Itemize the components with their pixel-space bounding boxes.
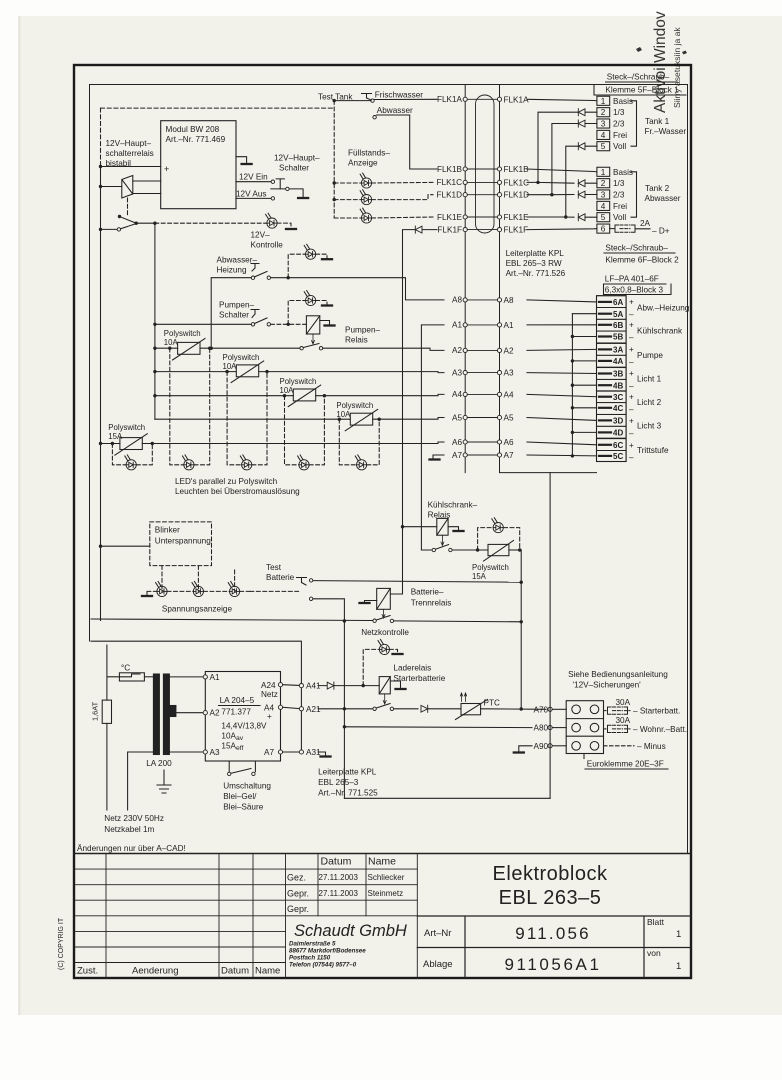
svg-text:Voll: Voll xyxy=(613,213,626,222)
svg-text:Spannungsanzeige: Spannungsanzeige xyxy=(162,605,233,614)
wire FLK1C across connector xyxy=(467,181,497,183)
svg-text:5: 5 xyxy=(601,213,606,222)
svg-text:Licht 2: Licht 2 xyxy=(637,398,662,407)
junction dashed LED1 xyxy=(333,181,336,184)
wire A7 to 5C xyxy=(527,454,597,457)
node A8 right pin xyxy=(497,298,501,302)
dashed 12V-Kontrolle row xyxy=(155,222,267,224)
dashed LED1 wires xyxy=(334,181,433,184)
block2 terminal 6 xyxy=(597,224,610,233)
dashed pumpen LED drop xyxy=(288,301,327,325)
svg-text:6: 6 xyxy=(601,225,606,234)
dashed LED box F5 xyxy=(112,444,152,465)
svg-text:Polyswitch: Polyswitch xyxy=(472,563,509,572)
minus stub 4C xyxy=(572,407,596,409)
junction minus 4B xyxy=(571,384,574,387)
svg-text:1: 1 xyxy=(601,97,606,106)
fuse F8 30A wohnraum xyxy=(604,728,608,730)
svg-text:Siirry asetuksiin ja ak: Siirry asetuksiin ja ak xyxy=(672,27,682,108)
svg-text:3A: 3A xyxy=(613,346,623,355)
svg-text:A1: A1 xyxy=(452,321,462,330)
wire mains left vertical xyxy=(107,645,120,700)
wire row4 bus to F4 xyxy=(155,418,350,420)
svg-text:15A: 15A xyxy=(221,742,236,751)
svg-text:A2: A2 xyxy=(210,709,220,718)
node A5 right pin xyxy=(497,415,501,419)
transformer T1 primary bar xyxy=(153,674,159,755)
dashed Pumpen to relay coil xyxy=(271,323,307,325)
wire A3 across connector xyxy=(467,372,497,374)
svg-text:4: 4 xyxy=(601,131,606,140)
LED level 3 xyxy=(360,208,372,223)
svg-text:3: 3 xyxy=(601,120,606,129)
wire A90 stub to block xyxy=(552,745,566,747)
svg-text:Licht 3: Licht 3 xyxy=(637,422,662,431)
junction bus blinker xyxy=(99,545,102,548)
svg-text:FLK1E: FLK1E xyxy=(504,213,530,222)
svg-text:Datum: Datum xyxy=(221,966,249,977)
svg-text:2/3: 2/3 xyxy=(613,191,625,200)
svg-text:Trennrelais: Trennrelais xyxy=(411,599,452,608)
svg-text:LA 200: LA 200 xyxy=(146,759,172,768)
pin test batterie a xyxy=(309,579,312,582)
wire thermal fuse to transformer xyxy=(144,676,153,678)
terminal 3B xyxy=(597,368,627,380)
svg-text:–: – xyxy=(629,405,634,414)
svg-text:(C) COPYRIG IT: (C) COPYRIG IT xyxy=(58,917,65,970)
node FLK1E left pin xyxy=(463,215,467,219)
ground Pumpen-Relais xyxy=(325,325,335,327)
svg-text:Umschaltung: Umschaltung xyxy=(223,782,271,791)
dashed enclosure left xyxy=(100,108,102,166)
ground Spannungsanzeige xyxy=(142,595,152,597)
switch Test Batterie button xyxy=(297,578,307,586)
ground Abw LED xyxy=(322,258,332,260)
wire K3 coil to ground xyxy=(448,527,458,530)
wire row2 F2 to A3 xyxy=(259,372,444,373)
svg-text:A4: A4 xyxy=(452,390,462,399)
svg-text:911.056: 911.056 xyxy=(515,924,591,943)
Euroklemme screws row3 xyxy=(572,742,581,751)
minus stub 4D xyxy=(572,431,596,433)
wire test tank to dashed bus xyxy=(334,100,371,102)
svg-text:Heizung: Heizung xyxy=(217,266,247,275)
svg-text:12V–Haupt–: 12V–Haupt– xyxy=(274,154,320,163)
block1 terminal 2 xyxy=(597,108,610,117)
revision table horizontal lines xyxy=(74,869,417,962)
wire mid contact to ground xyxy=(289,189,303,197)
PCB left edge vertical xyxy=(464,85,466,473)
svg-text:Basis: Basis xyxy=(613,168,633,177)
svg-text:Klemme 5F–Block 1: Klemme 5F–Block 1 xyxy=(605,86,679,95)
wire diode to FLK1F xyxy=(422,229,437,231)
contact K3 xyxy=(432,548,435,551)
node FLK1A left pin xyxy=(463,97,467,101)
svg-text:– Wohnr.–Batt.: – Wohnr.–Batt. xyxy=(633,725,687,734)
dashed link coil to switch xyxy=(127,198,129,216)
dashed box Blinker Unterspannung xyxy=(150,522,212,566)
wire K3 contact to F6 xyxy=(452,549,488,551)
svg-text:2: 2 xyxy=(601,179,606,188)
wire coil to module b xyxy=(133,193,161,195)
wire FLK1F vertical drop xyxy=(390,230,415,594)
node A2 right pin xyxy=(497,348,501,352)
node A4 left pin xyxy=(463,392,467,396)
svg-text:Abw.–Heizung: Abw.–Heizung xyxy=(637,304,690,313)
transformer tap notch xyxy=(169,706,176,717)
junction bus pumpen xyxy=(153,323,156,326)
pin A21 xyxy=(299,707,303,711)
relay K2 actuator arrow xyxy=(312,335,315,345)
LED voltage 2 xyxy=(192,582,204,597)
fuse 1,6AT body xyxy=(102,700,111,723)
svg-text:FLK1A: FLK1A xyxy=(504,95,530,104)
long row relay contact y620 xyxy=(91,619,373,621)
block2 bracket xyxy=(631,172,637,217)
spade terminal container xyxy=(597,296,627,462)
svg-text:– D+: – D+ xyxy=(652,227,670,236)
wire row3 F3 to A4 xyxy=(316,394,444,395)
svg-text:– Starterbatt.: – Starterbatt. xyxy=(633,707,680,716)
ground A90 xyxy=(514,752,524,754)
svg-text:2: 2 xyxy=(601,108,606,117)
wire FLK1D across connector xyxy=(467,194,497,196)
bus 12V main vertical xyxy=(100,167,102,621)
polyswitch F1 10A xyxy=(178,342,200,354)
svg-text:EBL 263–5: EBL 263–5 xyxy=(499,887,602,909)
svg-text:Daimlerstraße 5: Daimlerstraße 5 xyxy=(289,941,336,948)
svg-text:A24: A24 xyxy=(261,681,276,690)
terminal 4C xyxy=(597,403,627,415)
junction battery bus A70 xyxy=(520,707,523,710)
relay K3 actuator arrow xyxy=(441,536,444,546)
diode A21 charge xyxy=(421,705,428,712)
relay K3 Kuehlschrank coil xyxy=(437,518,448,535)
wire FLK1D to diodes xyxy=(527,124,597,195)
relay K2 Pumpen-Relais coil xyxy=(306,316,319,334)
svg-text:5A: 5A xyxy=(613,310,623,319)
junction dashed LED2 xyxy=(333,198,336,201)
diode D block1-3 xyxy=(578,120,585,127)
junction minus 5C xyxy=(571,454,574,457)
block2 terminal 5 xyxy=(597,213,610,222)
LED Pumpen xyxy=(304,291,316,306)
junction minus 4D xyxy=(571,431,574,434)
svg-text:3B: 3B xyxy=(613,370,623,379)
diode D block2-3 xyxy=(578,191,585,198)
svg-text:A5: A5 xyxy=(504,414,514,423)
svg-text:Basis: Basis xyxy=(613,97,633,106)
wire bus to module plus xyxy=(101,166,161,168)
ground Netzkontrolle LED xyxy=(393,653,403,655)
svg-text:Voll: Voll xyxy=(613,142,626,151)
svg-text:6C: 6C xyxy=(613,441,623,450)
pin A3 xyxy=(203,750,207,754)
svg-text:Art.–Nr. 771.469: Art.–Nr. 771.469 xyxy=(166,135,226,144)
net Minus dashed xyxy=(604,745,635,747)
dashed drops to voltage LEDs xyxy=(147,566,250,595)
svg-text:Art.–Nr. 771.525: Art.–Nr. 771.525 xyxy=(318,788,378,797)
svg-text:Netzkabel 1m: Netzkabel 1m xyxy=(104,825,154,834)
svg-text:Aktivoi Windov: Aktivoi Windov xyxy=(652,11,669,113)
diode D block1-5 xyxy=(578,143,585,150)
svg-text:Leiterplatte KPL: Leiterplatte KPL xyxy=(318,768,377,777)
svg-text:'12V–Sicherungen': '12V–Sicherungen' xyxy=(573,681,642,690)
svg-text:Frei: Frei xyxy=(613,202,627,211)
svg-text:FLK1B: FLK1B xyxy=(504,165,530,174)
junction F2 dash xyxy=(225,370,228,373)
svg-text:Schalter: Schalter xyxy=(279,164,309,173)
cable harness capsule xyxy=(476,95,495,233)
ground 12V-Haupt xyxy=(298,197,308,199)
svg-text:1: 1 xyxy=(676,961,681,972)
junction F5 dash left xyxy=(111,442,114,445)
block1 terminal 4 xyxy=(597,130,610,139)
wire A4 to A21 pin xyxy=(283,707,300,708)
svg-text:–: – xyxy=(629,310,634,319)
scan speck right xyxy=(682,51,687,55)
svg-text:A7: A7 xyxy=(452,451,462,460)
svg-text:– Minus: – Minus xyxy=(637,742,666,751)
svg-text:5: 5 xyxy=(601,142,606,151)
svg-text:12V–: 12V– xyxy=(251,231,271,240)
battery minus bottom return xyxy=(344,797,550,799)
wire A1 across connector xyxy=(467,324,497,326)
LED Netzkontrolle xyxy=(378,640,390,655)
ground chassis transformer xyxy=(163,770,165,785)
wire FLK1C to diodes xyxy=(527,112,597,183)
svg-text:+: + xyxy=(629,417,634,426)
wire A21 row left xyxy=(318,708,373,710)
junction pumpen LED tap xyxy=(287,323,290,326)
node A7 left pin xyxy=(463,453,467,457)
switch Test Tank button xyxy=(362,94,372,99)
LED level 1 xyxy=(360,173,372,188)
dashed LED box F4 xyxy=(339,419,379,465)
junction minus 4C xyxy=(571,406,574,409)
svg-text:Gepr.: Gepr. xyxy=(287,889,309,899)
terminal 5C xyxy=(597,451,627,462)
wire row5 F5 to A6 xyxy=(142,442,444,444)
svg-text:Art.–Nr. 771.526: Art.–Nr. 771.526 xyxy=(506,269,566,278)
wire primary bottom to mains2 xyxy=(128,752,154,810)
junction FLK1C xyxy=(536,181,539,184)
svg-text:4D: 4D xyxy=(613,429,623,438)
outer drawing frame xyxy=(74,65,691,978)
junction bus S2 xyxy=(99,228,102,231)
Umschaltung stubs xyxy=(229,761,255,772)
thermal fuse body xyxy=(119,673,144,681)
svg-text:Tank 2: Tank 2 xyxy=(645,184,670,193)
svg-text:Änderungen nur über A–CAD!: Änderungen nur über A–CAD! xyxy=(77,843,186,853)
svg-text:Telefon (07544) 9577–0: Telefon (07544) 9577–0 xyxy=(289,962,357,969)
svg-text:+: + xyxy=(629,321,634,330)
svg-text:A2: A2 xyxy=(504,346,514,355)
wire secondary top to A1 xyxy=(169,676,203,678)
svg-text:Anzeige: Anzeige xyxy=(348,159,378,168)
svg-text:A2: A2 xyxy=(452,346,462,355)
terminal 5B xyxy=(597,331,627,343)
ground K3 xyxy=(454,530,464,532)
svg-text:Trittstufe: Trittstufe xyxy=(637,446,669,455)
PTC arrows xyxy=(460,693,466,702)
svg-text:Ablage: Ablage xyxy=(423,959,453,970)
relay K4 actuator arrow xyxy=(382,610,385,619)
wire row3 bus to F3 xyxy=(155,395,293,397)
svg-text:Pumpen–: Pumpen– xyxy=(345,326,380,335)
svg-text:Name: Name xyxy=(255,966,280,977)
wire FLK1A to block1 terminal 1 xyxy=(527,99,597,101)
dashed LED box F3 xyxy=(285,396,325,465)
svg-text:Laderelais: Laderelais xyxy=(393,664,431,673)
junction FLK1D xyxy=(550,193,553,196)
svg-text:Siehe Bedienungsanleitung: Siehe Bedienungsanleitung xyxy=(568,670,668,679)
svg-text:4A: 4A xyxy=(613,357,623,366)
svg-text:4: 4 xyxy=(601,202,606,211)
wire K5 to ground xyxy=(390,681,400,688)
svg-text:A6: A6 xyxy=(504,438,514,447)
junction F4 dash xyxy=(338,418,341,421)
block1 terminal 1 xyxy=(597,96,610,105)
svg-text:Blei–Gel/: Blei–Gel/ xyxy=(223,792,257,801)
svg-text:15A: 15A xyxy=(472,572,487,581)
svg-text:+: + xyxy=(267,712,272,721)
node A3 left pin xyxy=(463,371,467,375)
svg-text:Schaudt GmbH: Schaudt GmbH xyxy=(294,922,407,940)
node FLK1F left pin xyxy=(463,228,467,232)
block1 terminal 3 xyxy=(597,119,610,128)
wire switch to bus x155 xyxy=(136,222,155,224)
node A3 right pin xyxy=(497,371,501,375)
minus stub 5A xyxy=(572,313,596,315)
svg-text:+: + xyxy=(629,369,634,378)
relay K5 Laderelais coil xyxy=(379,677,390,694)
switch 12V-Haupt mid contact xyxy=(271,188,286,190)
junction F1 dash xyxy=(168,347,171,350)
svg-text:Blatt: Blatt xyxy=(647,917,665,927)
svg-text:14,4V/13,8V: 14,4V/13,8V xyxy=(221,722,267,731)
block2 terminal 2 xyxy=(597,179,610,188)
svg-text:Test: Test xyxy=(266,563,282,572)
dashed sensor bus vertical xyxy=(333,101,335,218)
node FLK1C left pin xyxy=(463,180,467,184)
LED level 2 xyxy=(360,190,372,205)
svg-text:–: – xyxy=(629,382,634,391)
svg-text:+: + xyxy=(164,164,169,174)
svg-text:Frischwasser: Frischwasser xyxy=(375,90,423,99)
svg-text:Starterbatterie: Starterbatterie xyxy=(393,674,445,683)
pin A1 xyxy=(203,675,207,679)
minus stub 4A xyxy=(572,360,596,362)
title block top line xyxy=(74,853,691,855)
wire Abw-Heizung left drop xyxy=(211,278,251,349)
svg-text:°C: °C xyxy=(121,664,130,673)
switch Abw-Heizung contacts xyxy=(251,276,254,279)
battery bus vertical x521 xyxy=(520,550,522,709)
dashed LED box F2 xyxy=(227,372,267,465)
wire contact K5 to diode xyxy=(394,708,418,710)
node A7 right pin xyxy=(497,453,501,457)
ground 12V-Kontrolle xyxy=(286,228,296,230)
junction battery bus test xyxy=(520,581,523,584)
node FLK1D right pin xyxy=(497,193,501,197)
wire secondary bottom to A3 xyxy=(169,751,203,753)
terminal 6C xyxy=(597,439,627,451)
svg-text:Netz: Netz xyxy=(261,690,278,699)
junction minus 5B xyxy=(571,335,574,338)
svg-text:Elektroblock: Elektroblock xyxy=(493,863,608,885)
terminal 4A xyxy=(597,355,627,367)
svg-text:12V–Haupt–: 12V–Haupt– xyxy=(106,139,152,148)
wire test batterie to battery bus xyxy=(313,581,521,583)
battery minus column vertical xyxy=(549,473,551,799)
Euroklemme block outline xyxy=(566,701,603,754)
svg-text:A8: A8 xyxy=(504,296,514,305)
polyswitch F4 10A xyxy=(350,413,372,425)
svg-text:Batterie–: Batterie– xyxy=(411,588,444,597)
svg-text:Gez.: Gez. xyxy=(287,873,306,883)
terminal 3A xyxy=(597,344,627,356)
wire diode to PTC xyxy=(428,708,461,710)
terminal 3C xyxy=(597,391,627,403)
svg-text:PTC: PTC xyxy=(484,699,500,708)
junction FLK1F K3 xyxy=(401,525,404,528)
svg-text:Relais: Relais xyxy=(345,336,368,345)
wire A24 to A41 pin xyxy=(283,684,300,687)
junction F3 dash xyxy=(283,394,286,397)
terminal 5A xyxy=(597,308,627,320)
junction bus12V kontrolle xyxy=(153,222,156,225)
wire row1 F1 to contact xyxy=(200,347,300,349)
svg-text:Blinker: Blinker xyxy=(155,526,180,535)
wire A2 to 3A xyxy=(527,349,597,350)
polarity and load labels xyxy=(629,298,690,463)
svg-text:LA 204–5: LA 204–5 xyxy=(220,696,255,705)
wire A41 row to K5 xyxy=(318,685,379,687)
wire A5 across connector xyxy=(467,417,497,419)
block2 terminal 3 xyxy=(597,190,610,199)
svg-text:+: + xyxy=(629,345,634,354)
ground Pumpen LED xyxy=(322,305,332,307)
junction A80 riser xyxy=(343,725,346,728)
diode D block2-2 xyxy=(578,180,585,187)
pin A2 xyxy=(203,711,207,715)
contact K5 xyxy=(373,707,376,710)
junction bus plus xyxy=(99,165,102,168)
svg-text:A1: A1 xyxy=(504,321,514,330)
contact K2 on row xyxy=(300,347,303,350)
svg-text:10A: 10A xyxy=(164,338,179,347)
node A5 left pin xyxy=(463,415,467,419)
node FLK1C right pin xyxy=(497,180,501,184)
battery minus left riser xyxy=(343,727,345,799)
switch Pumpen button xyxy=(251,310,259,318)
svg-text:Polyswitch: Polyswitch xyxy=(108,423,145,432)
svg-text:LF–PA 401–6F: LF–PA 401–6F xyxy=(605,275,659,284)
svg-text:+: + xyxy=(629,298,634,307)
LED F5 overload xyxy=(125,455,137,470)
wire coil to module a xyxy=(133,180,161,182)
wire A3 to 3B xyxy=(527,372,597,375)
dashed LED to ground xyxy=(277,223,291,227)
svg-text:A3: A3 xyxy=(452,368,462,377)
junction test tank xyxy=(333,99,336,102)
svg-text:911056A1: 911056A1 xyxy=(504,955,601,974)
transformer T1 secondary bar xyxy=(163,674,169,755)
dashed Netzkontrolle LED wires xyxy=(363,649,397,685)
LED voltage 3 xyxy=(228,582,240,597)
wire FLK1F across connector xyxy=(467,229,497,231)
